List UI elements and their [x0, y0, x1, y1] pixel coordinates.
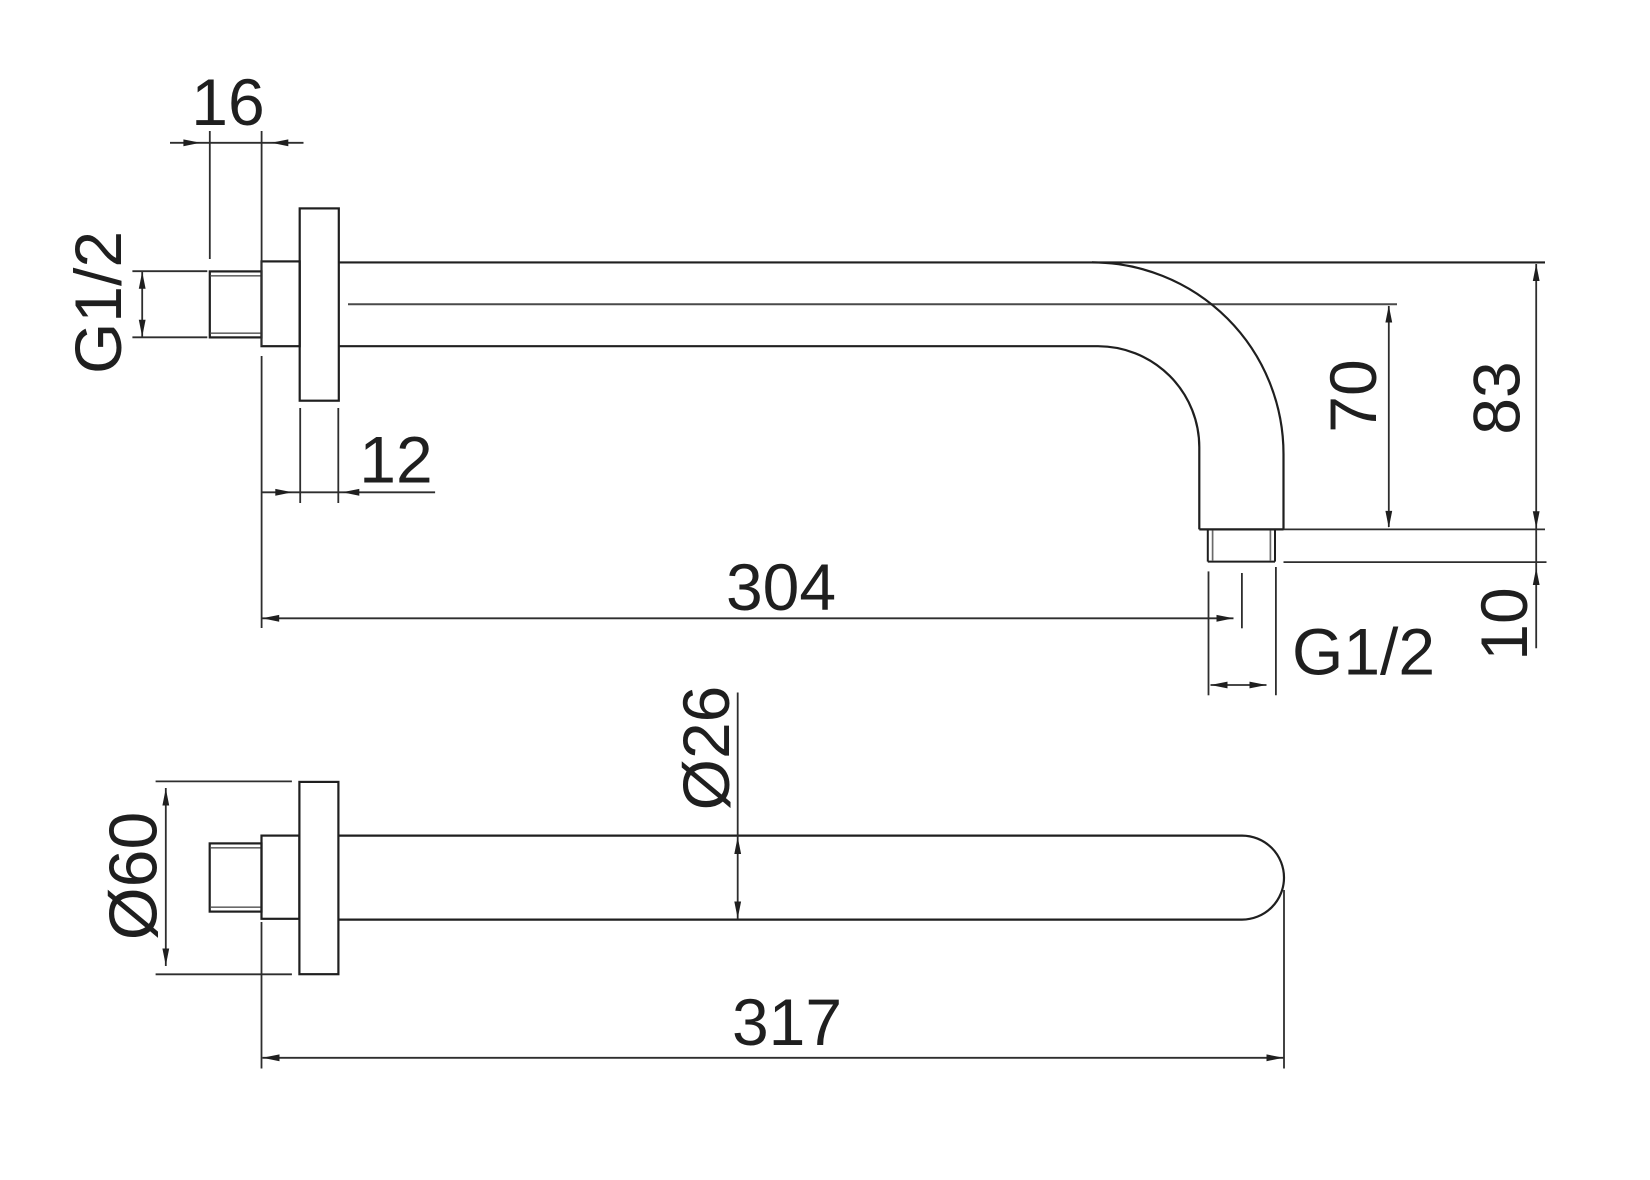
- svg-text:83: 83: [1460, 361, 1534, 434]
- svg-text:G1/2: G1/2: [61, 231, 135, 374]
- outlet nozzle thread root lines (side view): [1213, 530, 1271, 561]
- svg-text:70: 70: [1316, 359, 1390, 432]
- wall nipple (top view): [210, 843, 262, 911]
- wall flange (top view): [299, 782, 338, 974]
- dimension 16: dimension line with outside arrows: [170, 142, 304, 144]
- dimension G1/2 (wall thread): upper reference line: [132, 270, 207, 272]
- svg-text:10: 10: [1467, 587, 1541, 660]
- dimension 10: vertical dimension line with up arrow: [1535, 529, 1537, 649]
- dimension G1/2 (outlet): right extension line: [1275, 567, 1277, 695]
- dimension 16: extension line left: [209, 131, 211, 259]
- dimension D60: bottom reference line: [156, 973, 292, 975]
- wall flange escutcheon (side view): [300, 208, 339, 400]
- dimension D26: vertical line with arrows: [737, 693, 739, 920]
- dimension 317: arrowheads: [263, 1054, 1284, 1061]
- bend inner curve: [1098, 346, 1199, 529]
- wall nipple thread root lines (side view): [211, 276, 262, 333]
- dimension 317: dimension line: [263, 1057, 1284, 1059]
- dimension 317: left extension line: [261, 922, 263, 1069]
- dimension 83: vertical dimension line: [1535, 264, 1537, 529]
- wall nipple G1/2 (side view): [210, 271, 262, 337]
- svg-text:G1/2: G1/2: [1292, 615, 1435, 689]
- arm tube bottom line: [339, 345, 1098, 347]
- dimension 304: dimension line: [262, 617, 1233, 619]
- dimension 16: arrowheads: [183, 139, 288, 146]
- dimension 12: extension line from flange left: [299, 408, 301, 503]
- dimension 70: vertical dimension line: [1388, 306, 1390, 527]
- arm tube centerline (also extension for 70): [348, 303, 1397, 305]
- dimension 317: right extension line: [1283, 890, 1285, 1069]
- dimension D60: vertical line with arrows: [165, 788, 167, 966]
- dimension G1/2 (wall thread): vertical line with arrows: [141, 272, 143, 337]
- wall face extension line (lower part, to 304 dimension): [261, 356, 263, 628]
- dimension 304: right extension line (nozzle axis): [1241, 573, 1243, 628]
- svg-text:Ø60: Ø60: [96, 812, 172, 941]
- dimension D60: top reference line: [156, 780, 292, 782]
- bend bottom shoulder: [1199, 528, 1283, 530]
- dimension G1/2 (wall thread): lower reference line: [132, 336, 207, 338]
- wall nipple thread root lines (top view): [210, 848, 261, 907]
- dimension 12: dimension line with outside arrows: [262, 491, 435, 493]
- outlet nozzle G1/2 (side view): [1208, 530, 1275, 561]
- svg-text:12: 12: [359, 423, 432, 497]
- collar (top view): [262, 836, 300, 919]
- dimension 12: extension line from flange right: [337, 408, 339, 503]
- collar between wall and flange (side view): [262, 261, 300, 346]
- dimension 16: wall face extension line (upper part): [261, 131, 263, 346]
- dimension G1/2 (outlet): left extension line: [1208, 571, 1210, 695]
- dimension 304: arrowheads: [262, 615, 1233, 622]
- arm tube top line (also extension for 83): [339, 261, 1545, 263]
- svg-text:16: 16: [191, 65, 264, 139]
- svg-text:304: 304: [726, 550, 836, 624]
- dimension G1/2 (outlet): dimension line with arrows: [1211, 684, 1267, 686]
- dimension 83: bottom extension line: [1284, 528, 1546, 530]
- svg-text:Ø26: Ø26: [669, 686, 743, 811]
- bend outer curve: [1092, 262, 1284, 529]
- dimension 10: bottom extension line (nozzle outlet): [1284, 561, 1547, 563]
- svg-text:317: 317: [732, 985, 842, 1059]
- arm tube with rounded end (top view): [338, 836, 1284, 920]
